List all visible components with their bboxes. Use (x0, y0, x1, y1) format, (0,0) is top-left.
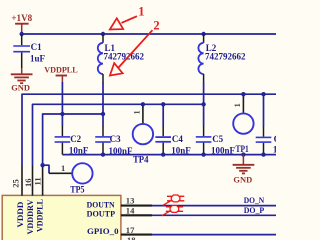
svg-text:TP1: TP1 (236, 144, 250, 154)
wire +1V8 rail (22, 33, 276, 35)
svg-text:1: 1 (233, 103, 242, 107)
svg-text:C6: C6 (274, 134, 276, 144)
inductor L2 (198, 35, 246, 84)
node junction TP4 on line B (141, 102, 145, 106)
node junction L2/C5 on line B (201, 102, 205, 106)
svg-text:18: 18 (127, 235, 136, 240)
node junction C6 on line A (261, 92, 265, 96)
test point TP4 (133, 104, 153, 164)
svg-text:742792662: 742792662 (205, 52, 246, 62)
svg-text:VDDPLL: VDDPLL (44, 64, 78, 74)
svg-text:100nF: 100nF (273, 144, 276, 154)
node junction TP5 tap (40, 163, 44, 167)
capacitor C4 (155, 104, 191, 155)
svg-text:VDDPLL: VDDPLL (34, 199, 44, 232)
svg-text:DOUTP: DOUTP (87, 209, 116, 219)
svg-text:1: 1 (132, 110, 141, 114)
svg-text:GND: GND (11, 83, 30, 93)
capacitor C6 (clipped at edge) (256, 94, 298, 154)
svg-text:DO_N: DO_N (244, 195, 265, 205)
annotation arrow 2 (110, 19, 160, 76)
annotation arrow 1 (110, 5, 145, 30)
wire VDDPLL to line C (61, 82, 63, 114)
svg-text:C5: C5 (212, 134, 223, 144)
svg-text:17: 17 (126, 225, 135, 235)
wire line B VDDDRV (33, 104, 204, 165)
differential pair directive (DO_P) (162, 206, 183, 216)
svg-text:14: 14 (126, 205, 135, 215)
node junction L1/C3 on line C (101, 112, 105, 116)
inductor L1 (98, 35, 145, 84)
svg-text:25: 25 (10, 179, 20, 188)
node junction TP1 on line A (241, 92, 245, 96)
power port VDDPLL (44, 64, 78, 82)
IC U1 sheet part body (2, 195, 121, 240)
wire L2 to line B (203, 83, 205, 105)
power port +1V8 (11, 13, 32, 34)
pin 14 DOUTP stub (121, 214, 152, 216)
svg-text:TP5: TP5 (70, 185, 85, 195)
wire DO_N (152, 205, 276, 207)
node junction VDDPLL/C2 on line C (60, 112, 64, 116)
node junction C6 on line D (261, 152, 265, 156)
node junction rail/L1 (101, 32, 105, 36)
wire line A VDDD (22, 94, 276, 165)
svg-text:C4: C4 (172, 134, 183, 144)
svg-text:DO_P: DO_P (244, 205, 265, 215)
ground GND (right) (233, 155, 255, 185)
capacitor C3 (95, 114, 133, 156)
svg-text:TP4: TP4 (133, 154, 149, 164)
svg-text:1uF: 1uF (30, 53, 46, 63)
pin 11 VDDPLL stub (42, 167, 44, 196)
svg-text:2: 2 (153, 19, 159, 33)
svg-text:1: 1 (138, 5, 144, 19)
wire line C VDDPLL (43, 114, 103, 167)
node junction GND on line D (241, 152, 245, 156)
node junction C4 on line D (161, 152, 165, 156)
capacitor C2 (55, 114, 89, 155)
capacitor C5 (196, 104, 236, 155)
svg-text:1: 1 (61, 163, 65, 173)
svg-text:100nF: 100nF (109, 146, 134, 156)
node junction C4 on line B (161, 102, 165, 106)
node junction C3 on line D (101, 152, 105, 156)
node junction C5 on line D (201, 152, 205, 156)
svg-text:13: 13 (126, 195, 135, 205)
pin 16 VDDDRV stub (32, 165, 34, 195)
ground GND (C1) (11, 68, 33, 93)
test point TP1 (233, 94, 253, 154)
svg-text:100nF: 100nF (211, 145, 236, 155)
pin 13 DOUTN stub (121, 205, 152, 207)
capacitor C1 (13, 35, 45, 69)
svg-text:GND: GND (233, 174, 252, 184)
wire GPIO_0 (152, 234, 276, 236)
wire L1 to line C (102, 83, 104, 115)
differential pair directive (DO_N) (163, 195, 184, 205)
wire line D GND bus (62, 154, 276, 156)
pin 17 GPIO_0 stub (121, 234, 152, 236)
wire TP5 tap (43, 165, 49, 173)
svg-text:GPIO_0: GPIO_0 (87, 226, 119, 236)
wire DO_P (152, 214, 276, 216)
svg-text:C1: C1 (31, 42, 42, 52)
svg-text:C3: C3 (110, 134, 121, 144)
pin 25 VDDD stub (21, 165, 23, 195)
svg-text:VDDD: VDDD (15, 202, 25, 228)
svg-text:11: 11 (32, 177, 42, 185)
node junction rail/C1 (20, 32, 24, 36)
test point TP5 (49, 163, 93, 194)
svg-text:16: 16 (23, 178, 33, 187)
svg-text:10nF: 10nF (171, 146, 191, 156)
svg-text:+1V8: +1V8 (11, 13, 32, 23)
node junction rail/L2 (201, 32, 205, 36)
svg-text:VDDDRV: VDDDRV (25, 199, 35, 235)
svg-text:C2: C2 (70, 134, 81, 144)
svg-text:10nF: 10nF (69, 145, 89, 155)
